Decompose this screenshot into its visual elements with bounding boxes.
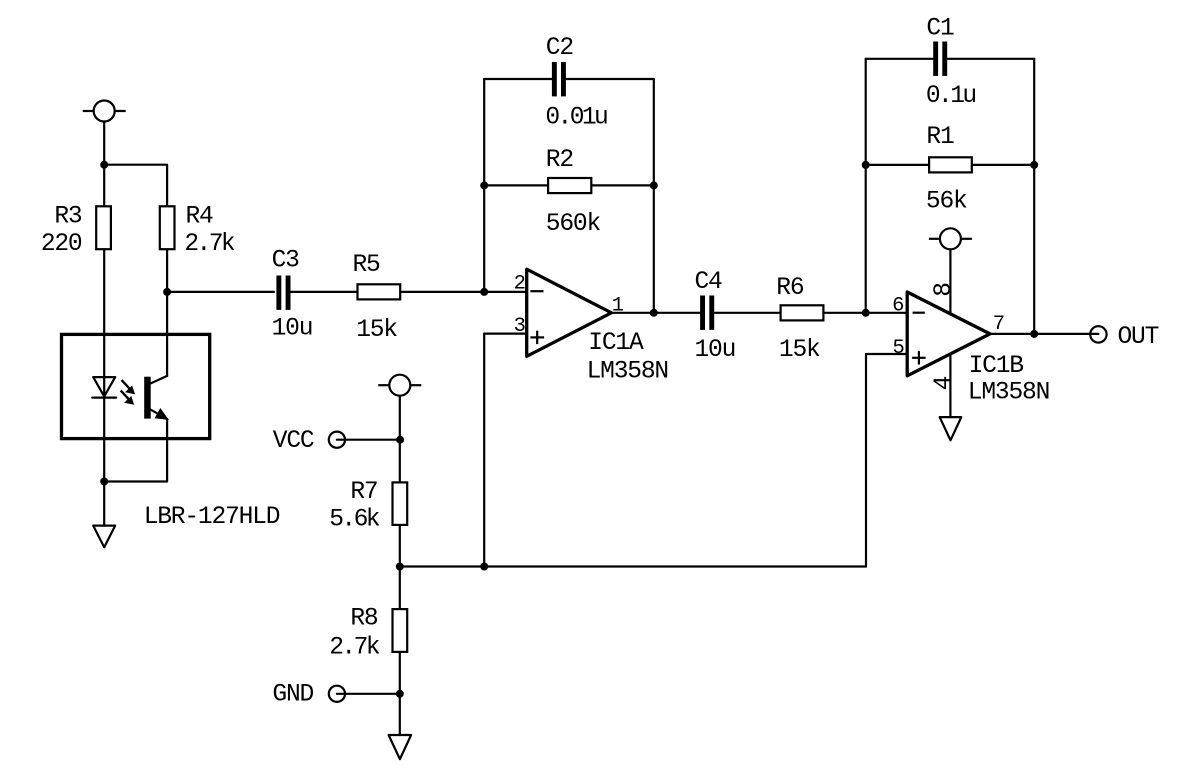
capacitor C4 bbox=[700, 296, 714, 330]
svg-text:R6: R6 bbox=[776, 275, 804, 302]
svg-text:2.7k: 2.7k bbox=[184, 231, 234, 258]
svg-text:GND: GND bbox=[272, 681, 313, 708]
svg-text:5.6k: 5.6k bbox=[329, 507, 379, 534]
wire bbox=[484, 78, 552, 80]
optocoupler OK1 box bbox=[62, 334, 210, 438]
svg-text:15k: 15k bbox=[356, 317, 397, 344]
svg-text:3: 3 bbox=[514, 315, 525, 338]
supply symbol above IC1B bbox=[929, 228, 972, 249]
phototransistor base bar bbox=[144, 377, 151, 419]
wire bbox=[823, 312, 907, 314]
terminal OUT bbox=[1090, 326, 1106, 342]
svg-text:7: 7 bbox=[993, 313, 1004, 336]
wire bbox=[866, 164, 929, 166]
light arrow 1 bbox=[122, 380, 135, 394]
wire bbox=[949, 354, 951, 417]
wire bbox=[337, 693, 400, 695]
svg-text:IC1A: IC1A bbox=[588, 330, 644, 357]
terminal GND bbox=[329, 686, 345, 702]
svg-text:C2: C2 bbox=[546, 35, 574, 62]
svg-text:C3: C3 bbox=[272, 248, 300, 275]
wire bbox=[400, 291, 527, 293]
wire bbox=[1033, 59, 1035, 334]
svg-text:560k: 560k bbox=[546, 211, 601, 238]
svg-text:R1: R1 bbox=[926, 124, 954, 151]
wire bbox=[653, 79, 655, 313]
svg-text:4: 4 bbox=[931, 376, 958, 390]
svg-text:2: 2 bbox=[514, 273, 525, 296]
resistor R2 bbox=[548, 178, 591, 193]
svg-text:1: 1 bbox=[612, 294, 624, 317]
svg-text:IC1B: IC1B bbox=[969, 353, 1024, 380]
phototransistor collector lead bbox=[151, 376, 167, 384]
node R2 right bbox=[650, 181, 658, 189]
node R2 left bbox=[480, 181, 488, 189]
terminal VCC bbox=[329, 432, 345, 448]
svg-text:56k: 56k bbox=[926, 189, 967, 216]
wire bbox=[611, 312, 700, 314]
wire bbox=[715, 312, 781, 314]
svg-text:R8: R8 bbox=[350, 606, 378, 633]
svg-text:8: 8 bbox=[931, 283, 958, 297]
svg-text:2.7k: 2.7k bbox=[329, 634, 379, 661]
op-amp IC1A bbox=[527, 269, 612, 356]
node pin2 feedback bbox=[480, 288, 488, 296]
wire bbox=[399, 396, 401, 483]
wire bbox=[337, 439, 400, 441]
svg-text:LM358N: LM358N bbox=[968, 379, 1049, 406]
capacitor C2 bbox=[552, 62, 566, 96]
wire bbox=[484, 184, 548, 186]
ground symbol below IC1B bbox=[940, 417, 962, 440]
wire bbox=[866, 58, 933, 60]
wire bbox=[103, 122, 105, 165]
capacitor C1 bbox=[933, 42, 947, 76]
wire bbox=[166, 249, 168, 376]
svg-text:VCC: VCC bbox=[273, 428, 314, 455]
ground symbol left bbox=[93, 526, 115, 548]
svg-text:10u: 10u bbox=[272, 316, 313, 343]
wire bbox=[949, 249, 951, 314]
svg-text:C1: C1 bbox=[926, 16, 954, 43]
svg-text:0.01u: 0.01u bbox=[545, 105, 607, 132]
phototransistor emitter lead bbox=[151, 410, 168, 420]
capacitor C3 bbox=[276, 276, 290, 310]
node VCC tap bbox=[396, 436, 404, 444]
svg-text:0.1u: 0.1u bbox=[926, 83, 975, 110]
node rail left bbox=[396, 563, 404, 571]
wire bbox=[399, 652, 401, 735]
wire bbox=[104, 165, 167, 207]
svg-text:6: 6 bbox=[892, 295, 903, 318]
svg-text:OUT: OUT bbox=[1118, 324, 1159, 351]
resistor R7 bbox=[393, 482, 408, 525]
wire bbox=[103, 482, 105, 526]
svg-text:LBR-127HLD: LBR-127HLD bbox=[144, 504, 280, 531]
junction node dots bbox=[100, 161, 1038, 698]
wire bbox=[865, 59, 867, 313]
resistor R6 bbox=[781, 305, 824, 320]
wire bbox=[103, 249, 105, 481]
resistor R3 bbox=[96, 206, 111, 249]
op-amp IC1B bbox=[907, 292, 990, 376]
svg-text:R7: R7 bbox=[350, 479, 377, 506]
LED anode triangle bbox=[93, 377, 115, 396]
node GND tap bbox=[396, 690, 404, 698]
wire bbox=[291, 291, 358, 293]
wire bbox=[866, 354, 907, 567]
ground symbol bottom bbox=[389, 735, 412, 759]
resistor R5 bbox=[358, 284, 401, 299]
node stage1 out bbox=[650, 309, 658, 317]
node pin6 feedback bbox=[862, 309, 870, 317]
resistor R4 bbox=[160, 206, 175, 249]
svg-text:R3: R3 bbox=[54, 204, 82, 231]
supply symbol top-left bbox=[83, 101, 126, 122]
wire bbox=[399, 525, 401, 609]
supply symbol above R7 bbox=[378, 375, 421, 396]
wire bbox=[483, 79, 485, 292]
node stage2 out bbox=[1030, 330, 1038, 338]
wire bbox=[400, 565, 866, 567]
svg-text:C4: C4 bbox=[695, 269, 723, 296]
svg-text:220: 220 bbox=[41, 231, 82, 258]
wire bbox=[167, 291, 274, 293]
resistor R8 bbox=[393, 609, 408, 652]
svg-text:R5: R5 bbox=[353, 252, 381, 279]
wire bbox=[591, 184, 654, 186]
node rail mid bbox=[480, 563, 488, 571]
svg-text:10u: 10u bbox=[695, 337, 736, 364]
node R1 left bbox=[862, 161, 870, 169]
resistor R1 bbox=[929, 157, 972, 172]
wire bbox=[103, 165, 105, 207]
svg-text:5: 5 bbox=[892, 337, 903, 360]
wire bbox=[947, 58, 1034, 60]
node R1 right bbox=[1030, 161, 1038, 169]
LED cathode bar bbox=[92, 397, 116, 399]
svg-text:R4: R4 bbox=[186, 204, 214, 231]
wire bbox=[972, 164, 1034, 166]
node opto bottom bbox=[100, 478, 108, 486]
wire bbox=[484, 334, 527, 567]
svg-text:LM358N: LM358N bbox=[587, 358, 668, 385]
node top-left branch bbox=[100, 161, 108, 169]
wire bbox=[990, 333, 1098, 335]
svg-text:15k: 15k bbox=[779, 337, 820, 364]
svg-text:R2: R2 bbox=[546, 147, 574, 174]
wire bbox=[104, 419, 167, 482]
node signal tap bbox=[163, 288, 171, 296]
wire bbox=[566, 78, 654, 80]
light arrow 2 bbox=[121, 391, 134, 405]
